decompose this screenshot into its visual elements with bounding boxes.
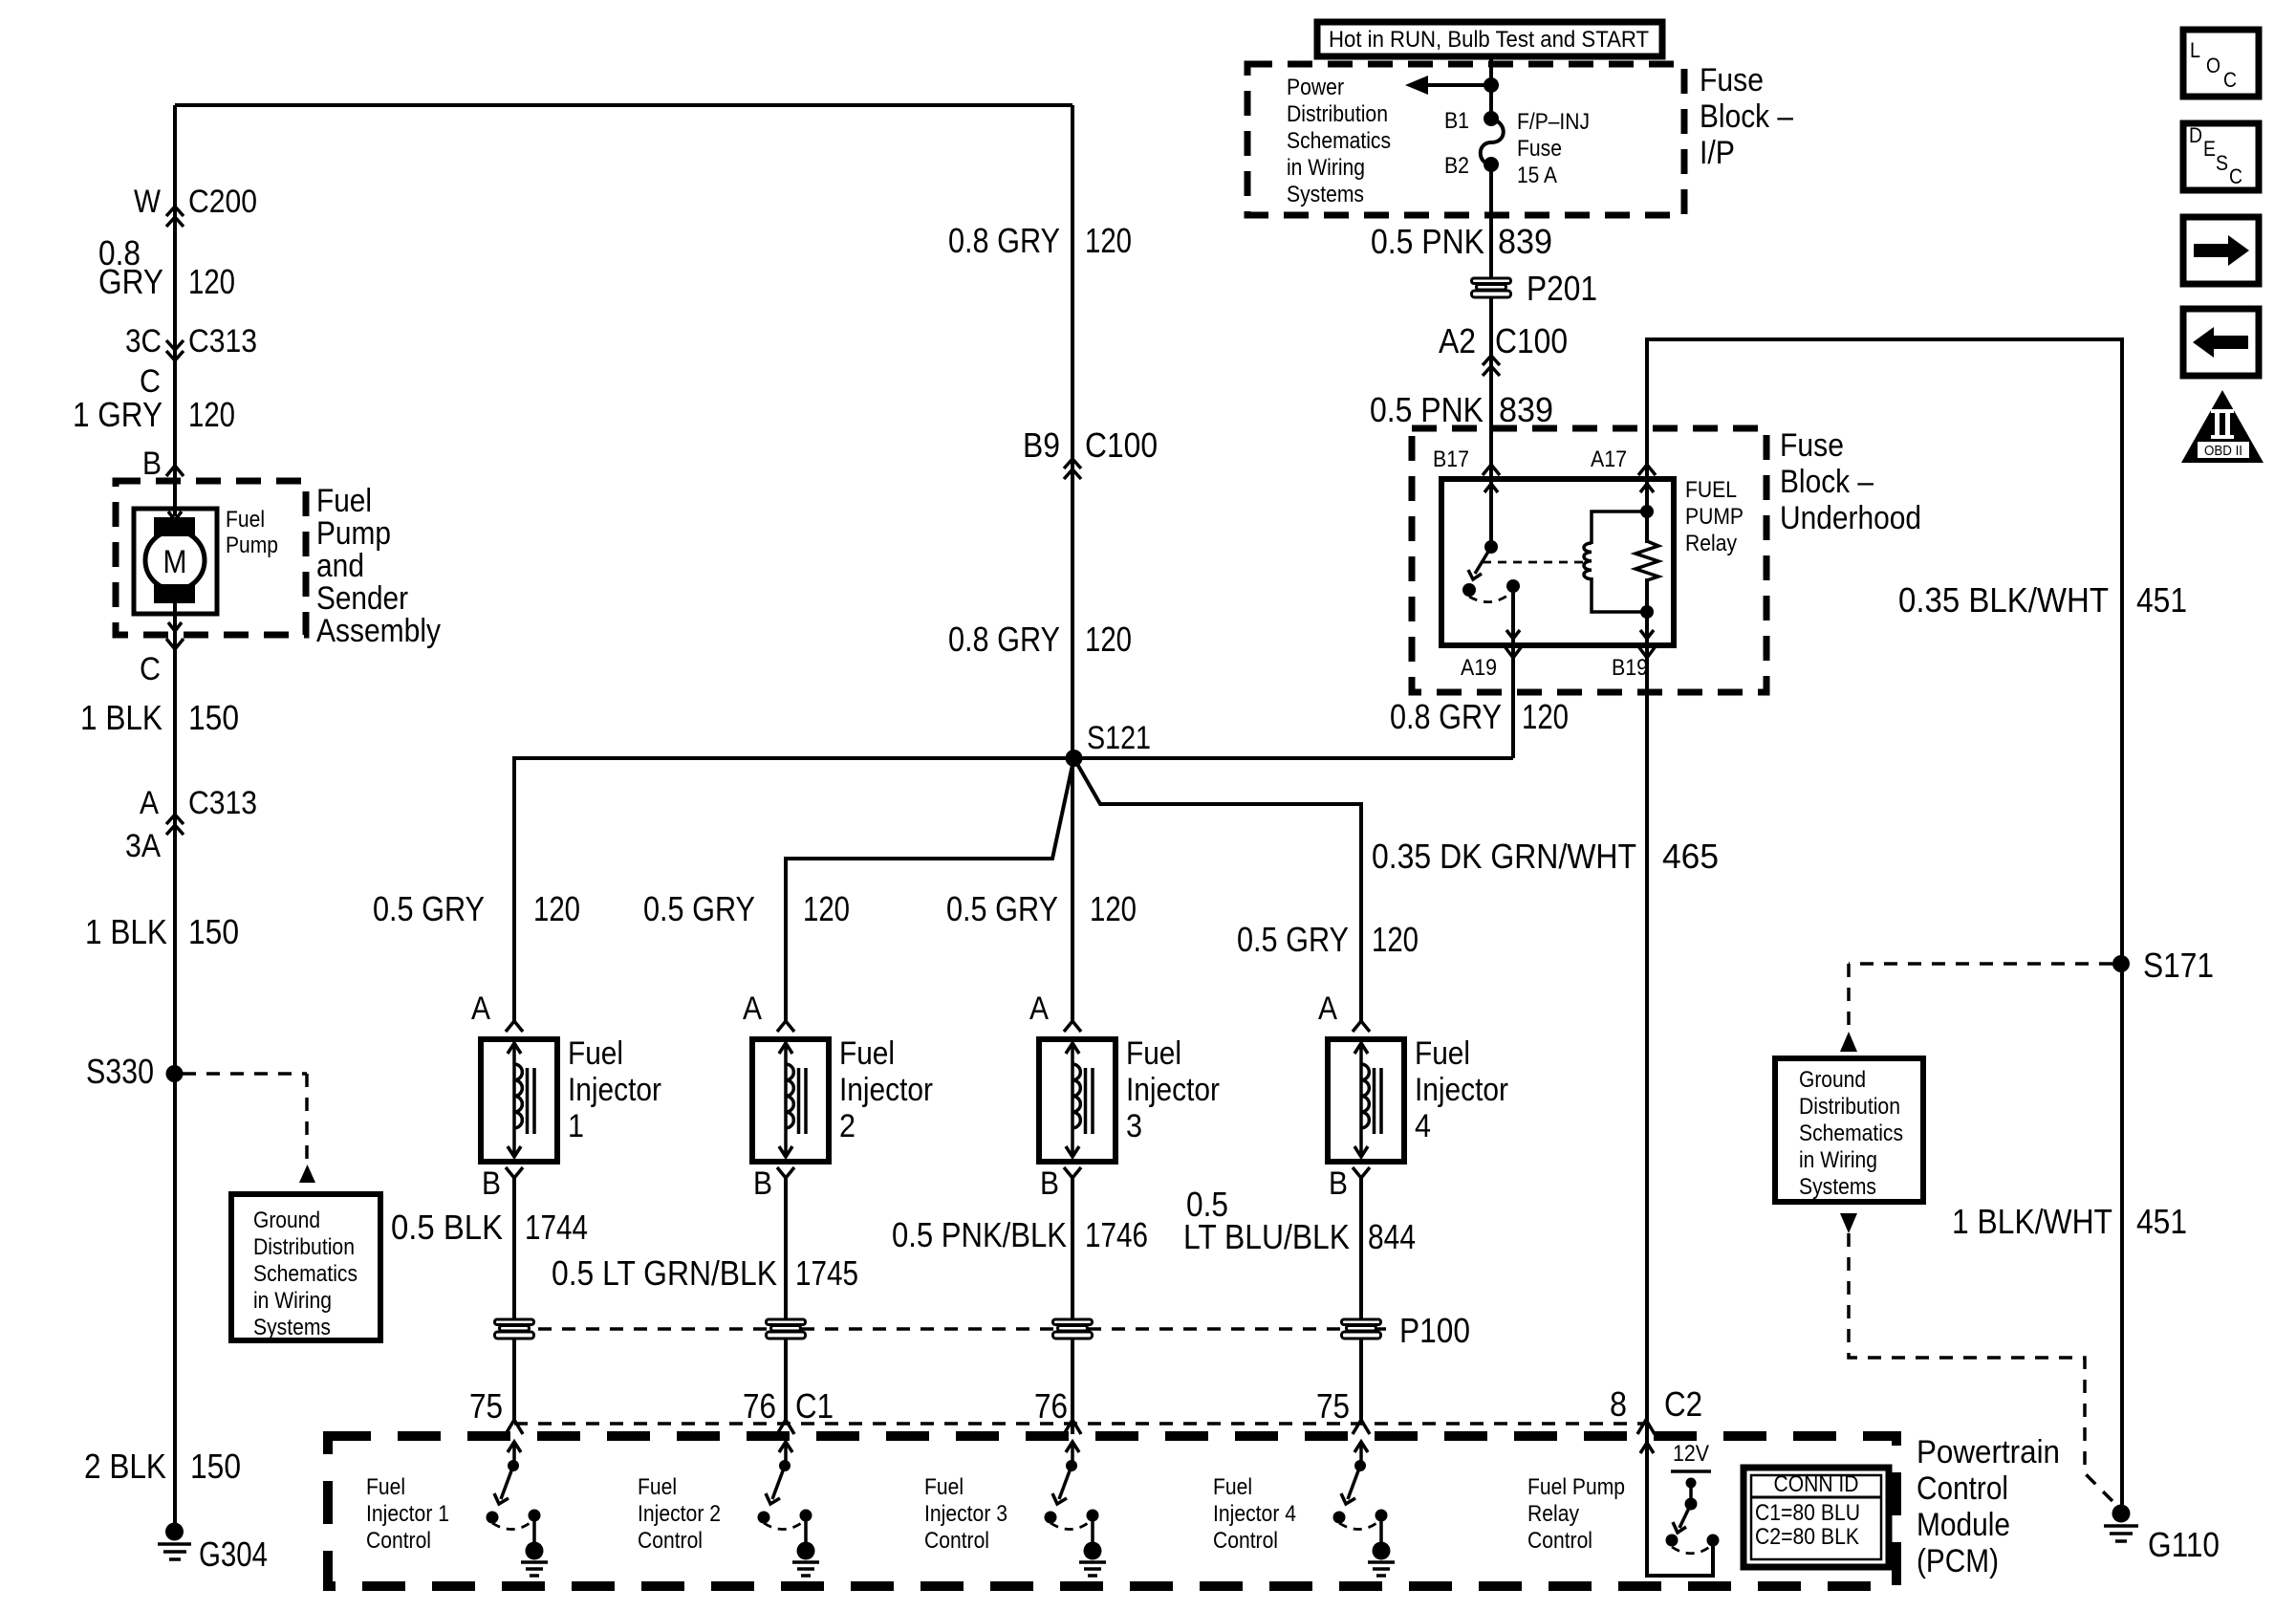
svg-text:Block –: Block – (1700, 98, 1793, 135)
svg-text:0.5 PNK: 0.5 PNK (1371, 222, 1484, 261)
svg-text:1 GRY: 1 GRY (73, 395, 162, 434)
svg-text:150: 150 (188, 912, 239, 951)
svg-text:120: 120 (188, 262, 235, 301)
svg-text:G110: G110 (2148, 1525, 2220, 1564)
svg-text:120: 120 (1085, 620, 1132, 659)
svg-text:B: B (142, 446, 162, 482)
svg-text:2 BLK: 2 BLK (84, 1447, 166, 1486)
svg-text:75: 75 (469, 1386, 503, 1426)
svg-text:B19: B19 (1612, 655, 1648, 681)
svg-text:120: 120 (1085, 221, 1132, 260)
svg-text:Pump: Pump (226, 533, 278, 558)
svg-text:3: 3 (1126, 1108, 1142, 1144)
svg-text:in Wiring: in Wiring (253, 1288, 332, 1314)
svg-text:Relay: Relay (1527, 1501, 1579, 1527)
svg-text:Control: Control (366, 1528, 431, 1554)
svg-text:0.5 GRY: 0.5 GRY (373, 889, 485, 928)
svg-text:150: 150 (188, 698, 239, 737)
svg-text:Fuel: Fuel (924, 1474, 964, 1500)
svg-text:Module: Module (1917, 1507, 2010, 1543)
svg-text:C313: C313 (188, 323, 257, 359)
svg-text:Pump: Pump (316, 515, 391, 552)
svg-text:B17: B17 (1433, 446, 1469, 472)
svg-text:B2: B2 (1444, 153, 1469, 179)
svg-text:1 BLK: 1 BLK (85, 912, 167, 951)
svg-text:S121: S121 (1087, 720, 1151, 756)
svg-text:B: B (1040, 1165, 1059, 1202)
svg-text:0.5 PNK: 0.5 PNK (1370, 390, 1484, 429)
svg-text:Control: Control (638, 1528, 703, 1554)
svg-text:Fuel: Fuel (1126, 1035, 1181, 1072)
svg-text:0.8 GRY: 0.8 GRY (948, 620, 1060, 659)
svg-text:3C: 3C (125, 323, 162, 359)
svg-text:P100: P100 (1399, 1311, 1470, 1350)
svg-text:Fuel Pump: Fuel Pump (1527, 1474, 1625, 1500)
svg-text:839: 839 (1499, 390, 1553, 429)
svg-text:Distribution: Distribution (1287, 101, 1388, 127)
svg-text:I/P: I/P (1700, 135, 1735, 171)
svg-text:Power: Power (1287, 75, 1344, 100)
svg-text:Fuel: Fuel (1213, 1474, 1252, 1500)
svg-text:Systems: Systems (1287, 182, 1364, 207)
svg-text:Distribution: Distribution (253, 1234, 355, 1260)
svg-text:Injector: Injector (568, 1072, 661, 1108)
svg-text:0.5 PNK/BLK: 0.5 PNK/BLK (892, 1215, 1067, 1254)
svg-text:Fuse: Fuse (1517, 136, 1562, 162)
svg-text:C200: C200 (188, 184, 257, 220)
svg-text:C2=80 BLK: C2=80 BLK (1755, 1524, 1859, 1550)
svg-text:S330: S330 (86, 1052, 154, 1091)
svg-text:Fuse: Fuse (1700, 62, 1764, 98)
svg-text:451: 451 (2136, 1202, 2187, 1241)
svg-text:C: C (140, 651, 161, 687)
svg-text:Injector: Injector (1415, 1072, 1508, 1108)
svg-text:Injector 2: Injector 2 (638, 1501, 721, 1527)
svg-text:A: A (1029, 991, 1049, 1027)
svg-text:0.35 DK GRN/WHT: 0.35 DK GRN/WHT (1372, 837, 1636, 876)
svg-text:Underhood: Underhood (1780, 500, 1921, 536)
svg-text:Schematics: Schematics (1287, 128, 1391, 154)
svg-text:Injector 3: Injector 3 (924, 1501, 1007, 1527)
svg-text:C100: C100 (1495, 321, 1568, 360)
svg-text:1744: 1744 (525, 1208, 588, 1247)
svg-text:Schematics: Schematics (1799, 1121, 1903, 1146)
svg-text:75: 75 (1316, 1386, 1350, 1426)
svg-text:1: 1 (568, 1108, 584, 1144)
svg-text:Hot in RUN, Bulb Test and STAR: Hot in RUN, Bulb Test and START (1329, 27, 1649, 53)
svg-text:GRY: GRY (98, 262, 163, 301)
svg-text:1 BLK/WHT: 1 BLK/WHT (1952, 1202, 2112, 1241)
svg-text:Systems: Systems (1799, 1174, 1876, 1200)
svg-text:Ground: Ground (1799, 1067, 1866, 1093)
svg-text:and: and (316, 548, 364, 584)
svg-text:A: A (471, 991, 490, 1027)
svg-text:LT BLU/BLK: LT BLU/BLK (1183, 1217, 1350, 1256)
svg-text:Relay: Relay (1685, 531, 1737, 556)
svg-text:C: C (2223, 68, 2237, 92)
svg-text:120: 120 (188, 395, 235, 434)
svg-text:A19: A19 (1461, 655, 1497, 681)
svg-text:C100: C100 (1085, 425, 1158, 465)
svg-text:A: A (1318, 991, 1337, 1027)
svg-text:C: C (2229, 164, 2242, 188)
svg-text:S171: S171 (2143, 946, 2214, 985)
svg-text:Fuel: Fuel (568, 1035, 623, 1072)
svg-text:in Wiring: in Wiring (1287, 155, 1365, 181)
svg-text:(PCM): (PCM) (1917, 1543, 1999, 1579)
svg-text:D: D (2189, 123, 2202, 147)
svg-text:PUMP: PUMP (1685, 504, 1744, 530)
svg-text:S: S (2216, 151, 2228, 175)
svg-text:FUEL: FUEL (1685, 477, 1737, 503)
svg-text:in Wiring: in Wiring (1799, 1147, 1877, 1173)
svg-text:0.8 GRY: 0.8 GRY (1390, 697, 1502, 736)
svg-text:0.5 GRY: 0.5 GRY (1237, 920, 1349, 959)
svg-text:Powertrain: Powertrain (1917, 1434, 2060, 1470)
svg-text:Schematics: Schematics (253, 1261, 357, 1287)
svg-text:451: 451 (2136, 580, 2187, 620)
svg-text:OBD II: OBD II (2204, 443, 2242, 459)
svg-text:Block –: Block – (1780, 464, 1874, 500)
svg-text:Control: Control (1213, 1528, 1278, 1554)
svg-text:Injector: Injector (1126, 1072, 1220, 1108)
svg-text:120: 120 (1372, 920, 1419, 959)
svg-text:15 A: 15 A (1517, 163, 1557, 188)
svg-text:M: M (163, 544, 187, 580)
svg-text:0.5 GRY: 0.5 GRY (946, 889, 1058, 928)
svg-text:F/P–INJ: F/P–INJ (1517, 109, 1590, 135)
svg-text:P201: P201 (1527, 269, 1597, 308)
svg-text:O: O (2206, 54, 2220, 77)
svg-text:3A: 3A (125, 828, 161, 864)
svg-text:Fuel: Fuel (366, 1474, 405, 1500)
svg-text:76: 76 (1034, 1386, 1068, 1426)
svg-text:A: A (140, 785, 159, 821)
svg-text:C1: C1 (795, 1386, 834, 1426)
svg-text:Fuel: Fuel (226, 507, 265, 533)
svg-text:Sender: Sender (316, 580, 408, 617)
svg-text:Ground: Ground (253, 1208, 320, 1233)
svg-text:B: B (753, 1165, 772, 1202)
svg-text:Fuel: Fuel (638, 1474, 677, 1500)
svg-text:120: 120 (533, 889, 580, 928)
svg-text:839: 839 (1498, 222, 1552, 261)
svg-text:844: 844 (1368, 1217, 1416, 1256)
svg-text:1746: 1746 (1085, 1215, 1148, 1254)
svg-text:CONN ID: CONN ID (1774, 1471, 1859, 1497)
svg-text:B9: B9 (1023, 425, 1060, 465)
svg-text:0.5 BLK: 0.5 BLK (391, 1208, 503, 1247)
svg-text:Injector 4: Injector 4 (1213, 1501, 1296, 1527)
svg-text:G304: G304 (199, 1535, 268, 1574)
svg-text:A2: A2 (1439, 321, 1476, 360)
svg-text:150: 150 (190, 1447, 241, 1486)
svg-text:Injector: Injector (839, 1072, 933, 1108)
svg-text:B1: B1 (1444, 108, 1469, 134)
svg-text:C2: C2 (1664, 1384, 1702, 1424)
svg-text:A17: A17 (1591, 446, 1627, 472)
svg-text:465: 465 (1662, 837, 1719, 876)
svg-text:Control: Control (1917, 1470, 2008, 1507)
svg-text:Systems: Systems (253, 1315, 331, 1340)
svg-text:A: A (743, 991, 762, 1027)
svg-text:Fuel: Fuel (316, 483, 372, 519)
svg-text:Injector 1: Injector 1 (366, 1501, 449, 1527)
svg-text:B: B (1329, 1165, 1348, 1202)
svg-text:C1=80 BLU: C1=80 BLU (1755, 1500, 1860, 1526)
svg-text:Control: Control (924, 1528, 989, 1554)
svg-text:1745: 1745 (795, 1253, 858, 1293)
svg-text:Fuel: Fuel (839, 1035, 895, 1072)
svg-text:1 BLK: 1 BLK (80, 698, 162, 737)
svg-text:120: 120 (1522, 697, 1569, 736)
svg-text:0.5 GRY: 0.5 GRY (643, 889, 755, 928)
svg-text:0.35 BLK/WHT: 0.35 BLK/WHT (1898, 580, 2109, 620)
svg-text:0.8 GRY: 0.8 GRY (948, 221, 1060, 260)
svg-text:Distribution: Distribution (1799, 1094, 1900, 1120)
svg-text:Assembly: Assembly (316, 613, 441, 649)
svg-text:8: 8 (1610, 1384, 1627, 1424)
svg-text:2: 2 (839, 1108, 856, 1144)
svg-text:0.5 LT GRN/BLK: 0.5 LT GRN/BLK (552, 1253, 777, 1293)
svg-text:120: 120 (1090, 889, 1137, 928)
svg-text:W: W (134, 184, 161, 220)
svg-text:L: L (2190, 38, 2200, 62)
svg-text:120: 120 (803, 889, 850, 928)
svg-text:E: E (2203, 137, 2216, 161)
svg-text:B: B (482, 1165, 501, 1202)
svg-text:76: 76 (743, 1386, 776, 1426)
svg-text:Fuel: Fuel (1415, 1035, 1470, 1072)
svg-text:Fuse: Fuse (1780, 427, 1844, 464)
svg-text:C313: C313 (188, 785, 257, 821)
svg-text:Control: Control (1527, 1528, 1592, 1554)
svg-text:12V: 12V (1673, 1441, 1709, 1467)
svg-text:4: 4 (1415, 1108, 1431, 1144)
